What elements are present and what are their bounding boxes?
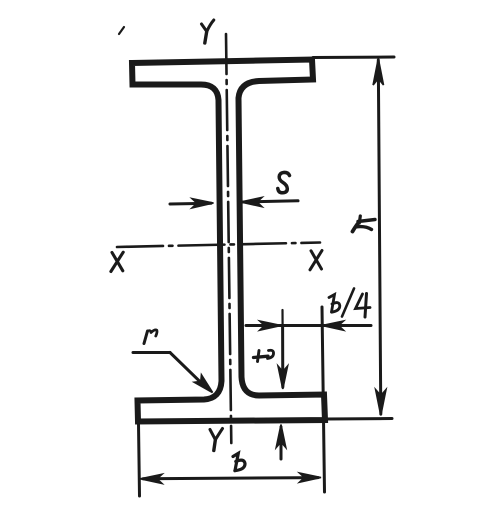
dimension S (web thickness) bbox=[170, 172, 298, 207]
label Y bottom bbox=[210, 429, 223, 451]
label t (rotated) bbox=[258, 351, 260, 362]
leader r (fillet radius) bbox=[133, 330, 213, 393]
vertical centerline Y-Y (dash-dot) bbox=[226, 34, 231, 443]
stray scan mark top-left bbox=[119, 27, 124, 34]
label S bbox=[278, 172, 290, 192]
dimension h (height) bbox=[313, 57, 394, 419]
label b bbox=[233, 453, 238, 470]
label b/4 bbox=[329, 295, 335, 313]
label r bbox=[144, 331, 148, 344]
dimension b/4 bbox=[246, 289, 371, 493]
horizontal centerline X-X (dash-dot) bbox=[117, 243, 320, 248]
label X right bbox=[310, 251, 322, 270]
I-beam cross-section outline bbox=[132, 60, 325, 422]
label Y top bbox=[202, 20, 214, 43]
dimension t (flange thickness) bbox=[254, 326, 288, 459]
label h (rotated) bbox=[353, 224, 358, 232]
dimension b (flange width) bbox=[139, 424, 322, 496]
label X left bbox=[111, 252, 123, 271]
